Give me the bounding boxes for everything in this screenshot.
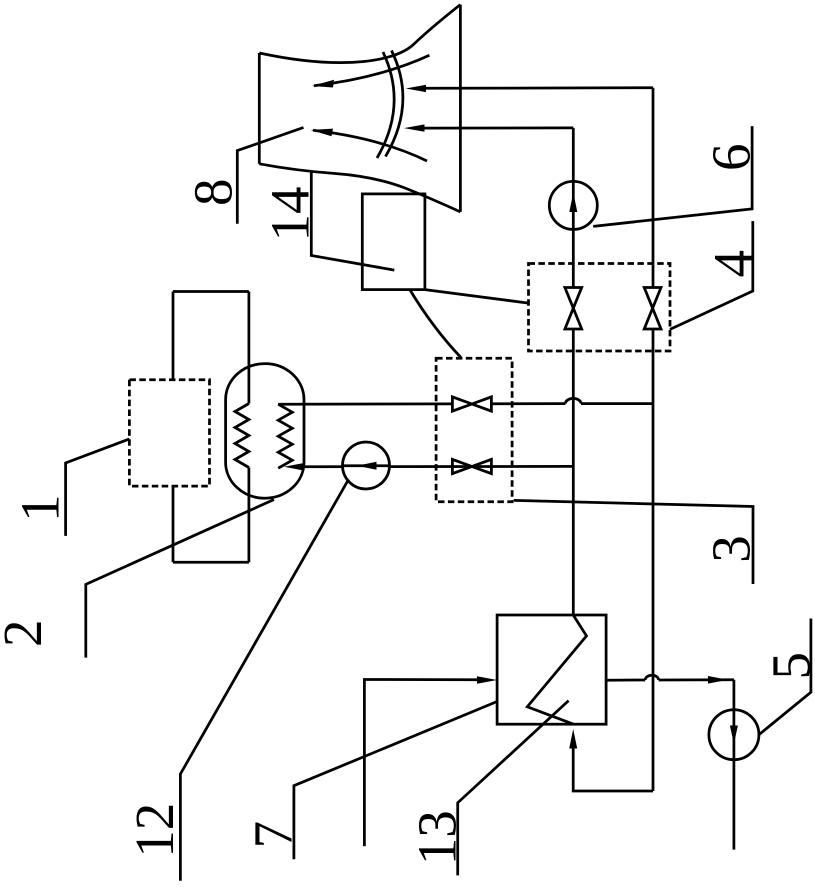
label 1 leader <box>66 439 130 536</box>
wire x=573.3 below box 4 to tee at y=466.4 <box>572 329 575 615</box>
label 8 leader <box>237 128 303 224</box>
pump 5 circle <box>709 710 759 760</box>
valve V1 in box 4 (on x=573.3) <box>565 288 582 330</box>
refrigerant wire y=466.5 through pump 12 to evaporator <box>299 465 573 468</box>
wire A: tower upper inlet from node x653 <box>424 86 653 89</box>
valve V2 in box 4 (on x=652.6) <box>644 288 661 330</box>
svg-text:8: 8 <box>183 179 244 207</box>
wire A vertical riser x=653 <box>652 88 655 288</box>
svg-text:2: 2 <box>0 620 53 648</box>
label 4 leader <box>670 221 753 329</box>
curved line tank 14 to valve box 3 <box>410 290 461 358</box>
return wire under exchanger with up arrow <box>569 729 653 791</box>
feed wire into exchanger left <box>364 680 482 847</box>
hot water tank 14 <box>362 194 425 290</box>
pump 6 internal line and arrow <box>572 181 575 229</box>
valve V4 in box 3 (lower, on y=466.5) <box>452 459 491 473</box>
svg-text:1: 1 <box>10 495 71 523</box>
arrowhead into exchanger left <box>477 676 497 684</box>
heat exchanger box 7 <box>497 615 606 724</box>
tower internal flow arrow (lower) <box>311 129 333 137</box>
svg-text:12: 12 <box>124 803 185 858</box>
pump 12 internal line and arrow <box>343 464 390 467</box>
outlet wire exchanger right with jump and arrow to pump 5 <box>606 675 734 683</box>
pump 6 circle <box>549 181 597 229</box>
valve box 4 (dashed) <box>529 264 671 352</box>
wire B vertical to pump 6 <box>572 128 575 288</box>
valve box 3 (dashed) <box>436 358 512 502</box>
svg-text:5: 5 <box>761 652 815 680</box>
arrowhead wire A <box>406 85 426 92</box>
tower fill band arc (left) <box>377 52 394 158</box>
svg-text:3: 3 <box>701 535 762 563</box>
label 3 leader <box>514 500 753 584</box>
cooling tower 8 shell <box>259 5 460 212</box>
svg-text:4: 4 <box>703 250 764 278</box>
label 12 leader <box>180 480 348 881</box>
tower fill band arc (right) <box>386 51 403 157</box>
valve V3 in box 3 (upper, on y=403.8) <box>452 397 491 411</box>
wire down to pump 5 and outlet <box>733 680 736 850</box>
pump 5 internal line and arrow <box>733 710 736 760</box>
svg-text:6: 6 <box>701 144 762 172</box>
arrowhead into evaporator coil <box>284 463 304 471</box>
pump 12 circle <box>343 442 390 489</box>
tower internal flow arrow (upper) <box>312 80 334 88</box>
svg-text:7: 7 <box>242 821 303 849</box>
label 6 leader <box>593 126 752 226</box>
label 5 leader <box>759 619 811 735</box>
label 7 leader <box>294 702 497 860</box>
generator box 1 (dashed) <box>129 380 209 486</box>
label 14 leader <box>311 172 394 271</box>
tower internal flow curve (lower) <box>313 130 427 161</box>
arrowhead wire B <box>404 124 425 131</box>
refrigerant wire y=403.8 from evaporator coil to valves <box>278 398 653 404</box>
label 13 leader <box>458 701 569 876</box>
wire B: tower lower inlet from pump 6 <box>424 127 573 130</box>
turbine housing rectangle <box>173 292 249 563</box>
control line tank 14 to valve box 4 <box>425 290 529 304</box>
svg-text:14: 14 <box>260 187 321 242</box>
svg-text:13: 13 <box>407 810 468 865</box>
evaporator vessel 2 (stadium) <box>226 364 304 499</box>
coil zigzag (right, refrigerant) <box>278 404 292 468</box>
tower internal flow curve (upper) <box>314 55 429 86</box>
wire x=653 below box 4 down to elbow <box>652 329 655 791</box>
coil zigzag (left, on turbine wall) <box>235 404 249 468</box>
label 2 leader <box>86 500 274 658</box>
coil 13 inside exchanger <box>527 615 586 724</box>
